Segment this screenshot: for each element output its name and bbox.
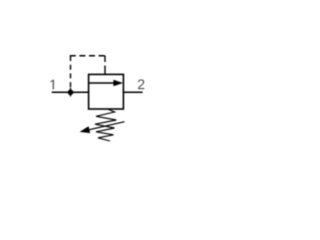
flow path arrow inside valve: [89, 80, 124, 86]
spring zigzag: [95, 109, 116, 141]
pilot line dashed vertical right lower dash: [104, 66, 106, 75]
valve body box: [89, 74, 124, 109]
junction node dot: [68, 90, 74, 96]
pilot line dashed vertical left: [70, 56, 72, 91]
spring adjust arrow shaft: [85, 122, 125, 131]
pilot line dashed vertical right upper dash: [104, 56, 106, 63]
junction vertical stub: [70, 88, 72, 97]
label port 1: [51, 80, 54, 90]
spring adjust arrowhead: [80, 126, 91, 133]
pilot line dashed horizontal top: [70, 55, 106, 57]
port 1 line: [52, 91, 89, 93]
port 2 line: [123, 91, 142, 93]
label port 2: [138, 79, 144, 89]
